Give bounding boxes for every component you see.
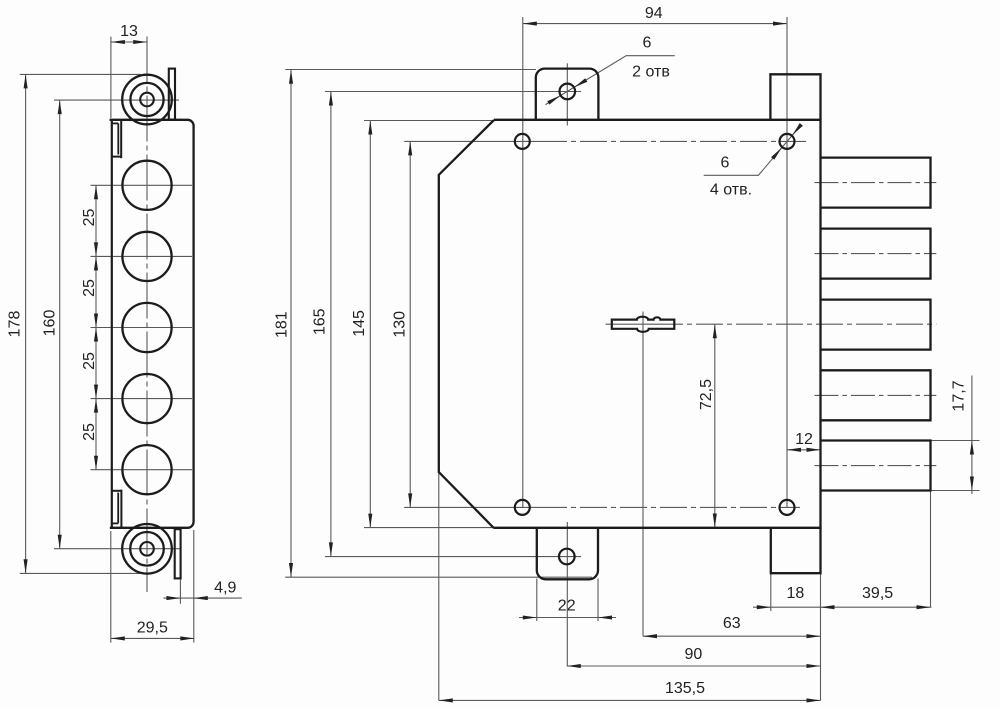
dim 22 arrows [523, 615, 537, 619]
dim line 29,5 [111, 637, 195, 639]
cylinder circle 3 [122, 303, 171, 352]
bolt 4 centerline [815, 394, 937, 396]
ext line 13 left [110, 37, 112, 118]
ext lines 4,9 [179, 580, 181, 604]
svg-text:29,5: 29,5 [137, 620, 168, 637]
keyhole horizontal centerline [606, 323, 657, 325]
svg-text:39,5: 39,5 [862, 585, 893, 602]
leader 2 holes arrows [573, 78, 587, 89]
svg-text:72,5: 72,5 [698, 379, 715, 410]
svg-text:160: 160 [41, 310, 58, 337]
dim line 12 [787, 449, 821, 451]
texts left view [6, 23, 236, 637]
dim line 90 [567, 665, 821, 667]
svg-text:25: 25 [81, 279, 98, 297]
top right tab [770, 74, 820, 120]
dim line 94 [523, 23, 787, 25]
dim 17,7 arrows [970, 441, 974, 455]
bottom right hole [780, 500, 795, 515]
keyhole key profile [612, 317, 675, 332]
ext lines 29,5 [110, 531, 112, 643]
bottom left hole [515, 500, 530, 515]
dim 39,5 right arrow [917, 605, 931, 609]
bolt 2 [821, 229, 931, 279]
bottom lug hole [559, 549, 575, 565]
ext line 178 top [20, 73, 141, 75]
top mounting lug [536, 69, 599, 120]
dim 94 arrows [523, 22, 537, 26]
dim 25 arrows [94, 185, 98, 199]
svg-text:12: 12 [795, 431, 813, 448]
dim line 145 [369, 121, 371, 528]
texts right view [274, 5, 968, 697]
dim 63 arrows [643, 634, 657, 638]
svg-text:165: 165 [312, 308, 329, 335]
dim line 130 [409, 141, 411, 507]
svg-text:6: 6 [643, 35, 652, 52]
svg-text:90: 90 [685, 646, 703, 663]
bottom mounting lug [537, 528, 598, 580]
dim line 13 [111, 41, 147, 43]
keyhole vertical ext [642, 312, 644, 637]
bolt 5 [821, 441, 931, 491]
ext 181 bottom [285, 576, 592, 578]
svg-text:145: 145 [351, 310, 368, 337]
svg-text:6: 6 [721, 155, 730, 172]
svg-text:25: 25 [81, 423, 98, 441]
svg-text:94: 94 [645, 5, 663, 22]
lower left channel [120, 490, 122, 528]
dim line 25 chain [95, 185, 97, 469]
dim line 165 [330, 92, 332, 557]
dim line 178 [25, 74, 27, 573]
svg-text:25: 25 [81, 352, 98, 370]
ext 39,5 right [930, 491, 932, 608]
cylinder circle 4 [122, 374, 171, 423]
ext line 178 bottom [20, 572, 144, 574]
lug holes vertical centerline [566, 63, 568, 125]
dim 135,5 arrows [439, 698, 453, 702]
top side plate [169, 69, 175, 120]
dim 181 arrows [289, 70, 293, 84]
arrows right view [289, 22, 974, 703]
cylinder circle 2 [122, 232, 171, 281]
bottom roller horizontal centerline / ext 160 [54, 548, 181, 550]
dim 72,5 arrows [713, 324, 717, 338]
top roller circles [122, 75, 172, 125]
ext 145 bottom [364, 527, 492, 529]
dim line 17,7 [971, 376, 973, 495]
cylinder circle 5 [122, 445, 171, 494]
left view body outline [110, 120, 194, 528]
svg-text:13: 13 [120, 23, 138, 40]
upper left channel [120, 120, 122, 158]
svg-text:63: 63 [723, 615, 741, 632]
dim 145 arrows [368, 121, 372, 135]
svg-text:4,9: 4,9 [214, 580, 236, 597]
dim 12 arrows [787, 448, 801, 452]
cylinder circle 1 [122, 161, 171, 210]
ext 145 top [364, 120, 493, 122]
dim line 72,5 [714, 324, 716, 527]
ext 181 top [285, 69, 536, 71]
bolt 1 [821, 158, 931, 208]
ext 17,7 [931, 440, 980, 442]
ext 135,5 left [438, 473, 440, 701]
leader 2 holes [546, 56, 675, 105]
dim line 18 / 39,5 [753, 606, 932, 608]
ext right edge bottom [820, 573, 822, 700]
dim line 22 [519, 617, 616, 619]
bottom right tab [771, 528, 821, 573]
bottom holes centerline [404, 506, 540, 508]
dim line 4,9 [163, 597, 241, 599]
top roller horizontal centerline / ext 160 [54, 99, 179, 101]
body outline right view [439, 120, 494, 528]
dim 165 arrows [329, 92, 333, 106]
top lug hole [560, 84, 576, 100]
cylinder circles centerlines [91, 184, 193, 186]
ext 22 [536, 579, 538, 622]
ext 94 left [522, 17, 524, 507]
bolt 1 centerline [815, 182, 937, 184]
dim line 135,5 [439, 699, 821, 701]
arrows left view [24, 40, 208, 641]
ext 94 right / 12 [786, 17, 788, 507]
leader 4 holes [704, 126, 801, 176]
svg-text:25: 25 [81, 209, 98, 227]
ext 165 top [325, 91, 581, 93]
ext 18 left [770, 573, 772, 611]
svg-text:22: 22 [558, 598, 576, 615]
centerline vertical left view [146, 37, 148, 593]
lug hole top horizontal centerline [538, 91, 582, 93]
dim line 160 [59, 100, 61, 549]
top holes centerline [404, 140, 540, 142]
leader 4 holes arrows [791, 123, 803, 136]
dim 130 arrows [408, 141, 412, 155]
svg-text:4 отв.: 4 отв. [710, 182, 752, 199]
dim 18 arrows [757, 605, 771, 609]
svg-text:178: 178 [6, 311, 23, 338]
dim 29,5 arrows [111, 636, 125, 640]
bolt 5 centerline [815, 465, 937, 467]
dim line 63 [643, 635, 821, 637]
svg-text:135,5: 135,5 [665, 680, 705, 697]
dim 178 arrows [24, 74, 28, 88]
bolt 2 centerline [815, 253, 937, 255]
left edge [111, 120, 113, 529]
svg-text:17,7: 17,7 [951, 380, 968, 411]
svg-text:2 отв: 2 отв [632, 63, 670, 80]
dim 160 arrows [58, 100, 62, 114]
svg-text:130: 130 [392, 311, 409, 338]
bolt 4 [821, 370, 931, 420]
top right hole [780, 134, 795, 149]
dim 13 arrows [111, 40, 125, 44]
bolt 3 [821, 300, 931, 350]
bottom side plate [175, 529, 181, 578]
bottom roller circles [122, 524, 172, 574]
svg-text:181: 181 [274, 311, 291, 338]
top left hole [515, 134, 530, 149]
dim line 181 [290, 70, 292, 577]
dim 4,9 arrows [166, 596, 180, 600]
ext 165 bottom [325, 556, 581, 558]
dim 90 arrows [567, 664, 581, 668]
svg-text:18: 18 [787, 585, 805, 602]
